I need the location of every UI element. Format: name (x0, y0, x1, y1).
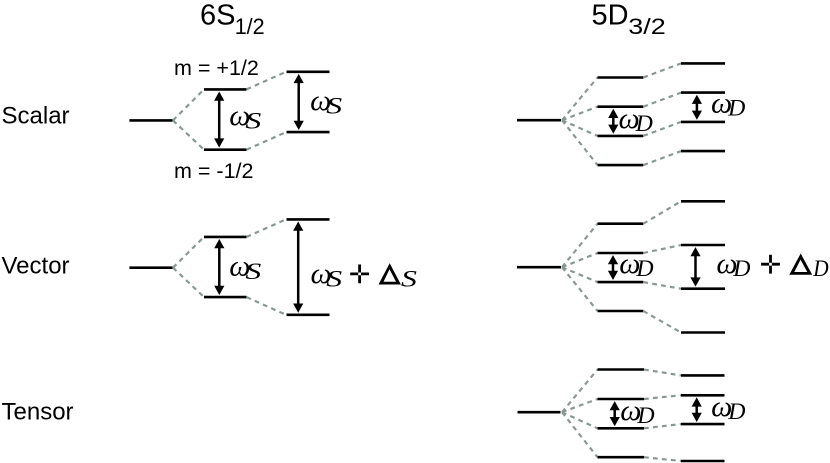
vector 5D Zeeman level 1 (598, 222, 644, 225)
tensor 5D shifted level 3 (681, 423, 725, 426)
tensor 5D Zeeman level 1 (598, 368, 645, 371)
dashed shift level 2 (tensor 5D) (644, 395, 681, 399)
scalar 5D Zeeman level 4 (598, 164, 644, 167)
dashed split to level 3 (scalar 5D) (562, 120, 598, 136)
dashed shift up (vector 6S) (247, 219, 287, 237)
vector 6S m=-1/2 shifted level (287, 313, 330, 316)
svg-text:m = -1/2: m = -1/2 (174, 159, 253, 183)
scalar 6S m=-1/2 shifted level (287, 131, 330, 134)
dashed split down (vector 6S) (173, 268, 204, 297)
tensor 5D shifted level 2 (681, 394, 725, 397)
vector 5D unperturbed level (517, 266, 561, 269)
dashed shift m=-1/2 (scalar 6S) (247, 132, 287, 150)
dashed shift level 3 (vector 5D) (643, 282, 681, 289)
scalar 5D shifted level 1 (681, 62, 725, 65)
arrow omega_S (vector 6S col1) (214, 239, 224, 295)
arrow omega_S splitting (scalar 6S col2) (294, 74, 304, 130)
dashed shift level 2 (vector 5D) (643, 245, 681, 253)
dashed split to level 4 (scalar 5D) (562, 120, 598, 165)
tensor 5D Zeeman level 4 (598, 456, 645, 459)
label omega_D + Delta_D (vector 5D col2) (716, 247, 829, 281)
vector 5D Zeeman level 3 (598, 281, 644, 284)
dashed shift level 4 (vector 5D) (643, 311, 681, 333)
vector 5D Zeeman level 4 (598, 310, 644, 313)
dashed split to level 2 (vector 5D) (562, 253, 598, 267)
arrow omega_D (scalar 5D col2) (692, 95, 702, 120)
scalar 6S m=+1/2 shifted level (287, 71, 330, 74)
arrow omega_D (tensor 5D col2) (692, 397, 702, 422)
scalar 5D Zeeman level 3 (598, 135, 644, 138)
tensor 5D Zeeman level 2 (598, 398, 645, 401)
dashed split to level 3 (tensor 5D) (562, 412, 598, 428)
tensor 5D unperturbed level (518, 411, 561, 414)
scalar 5D shifted level 2 (681, 91, 725, 94)
scalar 5D shifted level 4 (681, 150, 725, 153)
dashed split to level 1 (scalar 5D) (562, 78, 598, 121)
tensor 5D shifted level 4 (681, 460, 725, 463)
dashed shift level 1 (tensor 5D) (644, 370, 681, 376)
vector 5D Zeeman level 2 (598, 252, 644, 255)
tensor 5D Zeeman level 3 (598, 427, 645, 430)
dashed split to m=+1/2 (scalar 6S) (173, 89, 204, 120)
dashed shift level 1 (vector 5D) (643, 201, 681, 223)
scalar 6S m=+1/2 level (B field) (204, 88, 247, 91)
svg-text:Scalar: Scalar (2, 103, 70, 130)
dashed split to level 1 (vector 5D) (562, 224, 598, 268)
dashed split to level 2 (scalar 5D) (562, 107, 598, 121)
scalar 5D Zeeman level 1 (598, 76, 644, 79)
svg-text:Tensor: Tensor (2, 399, 74, 426)
dashed split to level 4 (vector 5D) (562, 267, 598, 311)
dashed shift level 3 (tensor 5D) (644, 424, 681, 428)
vector 5D shifted level 2 (681, 244, 725, 247)
dashed split to m=-1/2 (scalar 6S) (173, 120, 204, 149)
arrow omega_D + Delta_D (vector 5D col2) (690, 247, 700, 287)
dashed shift level 4 (tensor 5D) (644, 457, 681, 461)
vector 5D shifted level 4 (681, 331, 725, 334)
arrow omega_S + Delta_S (vector 6S col2) (293, 222, 303, 313)
vector 5D shifted level 3 (681, 287, 725, 290)
arrow omega_S splitting (scalar 6S col1) (214, 92, 224, 148)
dashed shift level 2 (scalar 5D) (643, 93, 681, 107)
svg-text:m = +1/2: m = +1/2 (174, 56, 259, 80)
arrow omega_D (tensor 5D col1) (610, 401, 620, 426)
svg-text:Vector: Vector (2, 253, 70, 280)
dashed split to level 2 (tensor 5D) (562, 399, 598, 412)
dashed shift m=+1/2 (scalar 6S) (247, 72, 287, 90)
dashed shift level 3 (scalar 5D) (643, 122, 681, 136)
vector 6S unperturbed level (129, 266, 172, 269)
scalar 6S m=-1/2 level (B field) (204, 148, 247, 151)
scalar 6S unperturbed level (129, 119, 172, 122)
scalar 5D unperturbed level (517, 119, 561, 122)
arrow omega_D (scalar 5D col1) (608, 109, 618, 134)
vector 5D shifted level 1 (681, 200, 725, 203)
dashed split up (vector 6S) (173, 237, 204, 268)
dashed shift level 4 (scalar 5D) (643, 151, 681, 165)
vector 6S m=+1/2 shifted level (287, 218, 330, 221)
dashed split to level 4 (tensor 5D) (562, 412, 598, 457)
dashed split to level 1 (tensor 5D) (562, 370, 598, 413)
dashed shift down (vector 6S) (247, 297, 287, 315)
dashed split to level 3 (vector 5D) (562, 267, 598, 282)
tensor 5D shifted level 1 (681, 374, 725, 377)
arrow omega_D (vector 5D col1) (608, 255, 618, 280)
vector 6S m=-1/2 level (204, 296, 247, 299)
scalar 5D Zeeman level 2 (598, 105, 644, 108)
vector 6S m=+1/2 level (204, 236, 247, 239)
label omega_S + Delta_S (vector 6S col2) (311, 257, 418, 292)
scalar 5D shifted level 3 (681, 121, 725, 124)
dashed shift level 1 (scalar 5D) (643, 63, 681, 77)
